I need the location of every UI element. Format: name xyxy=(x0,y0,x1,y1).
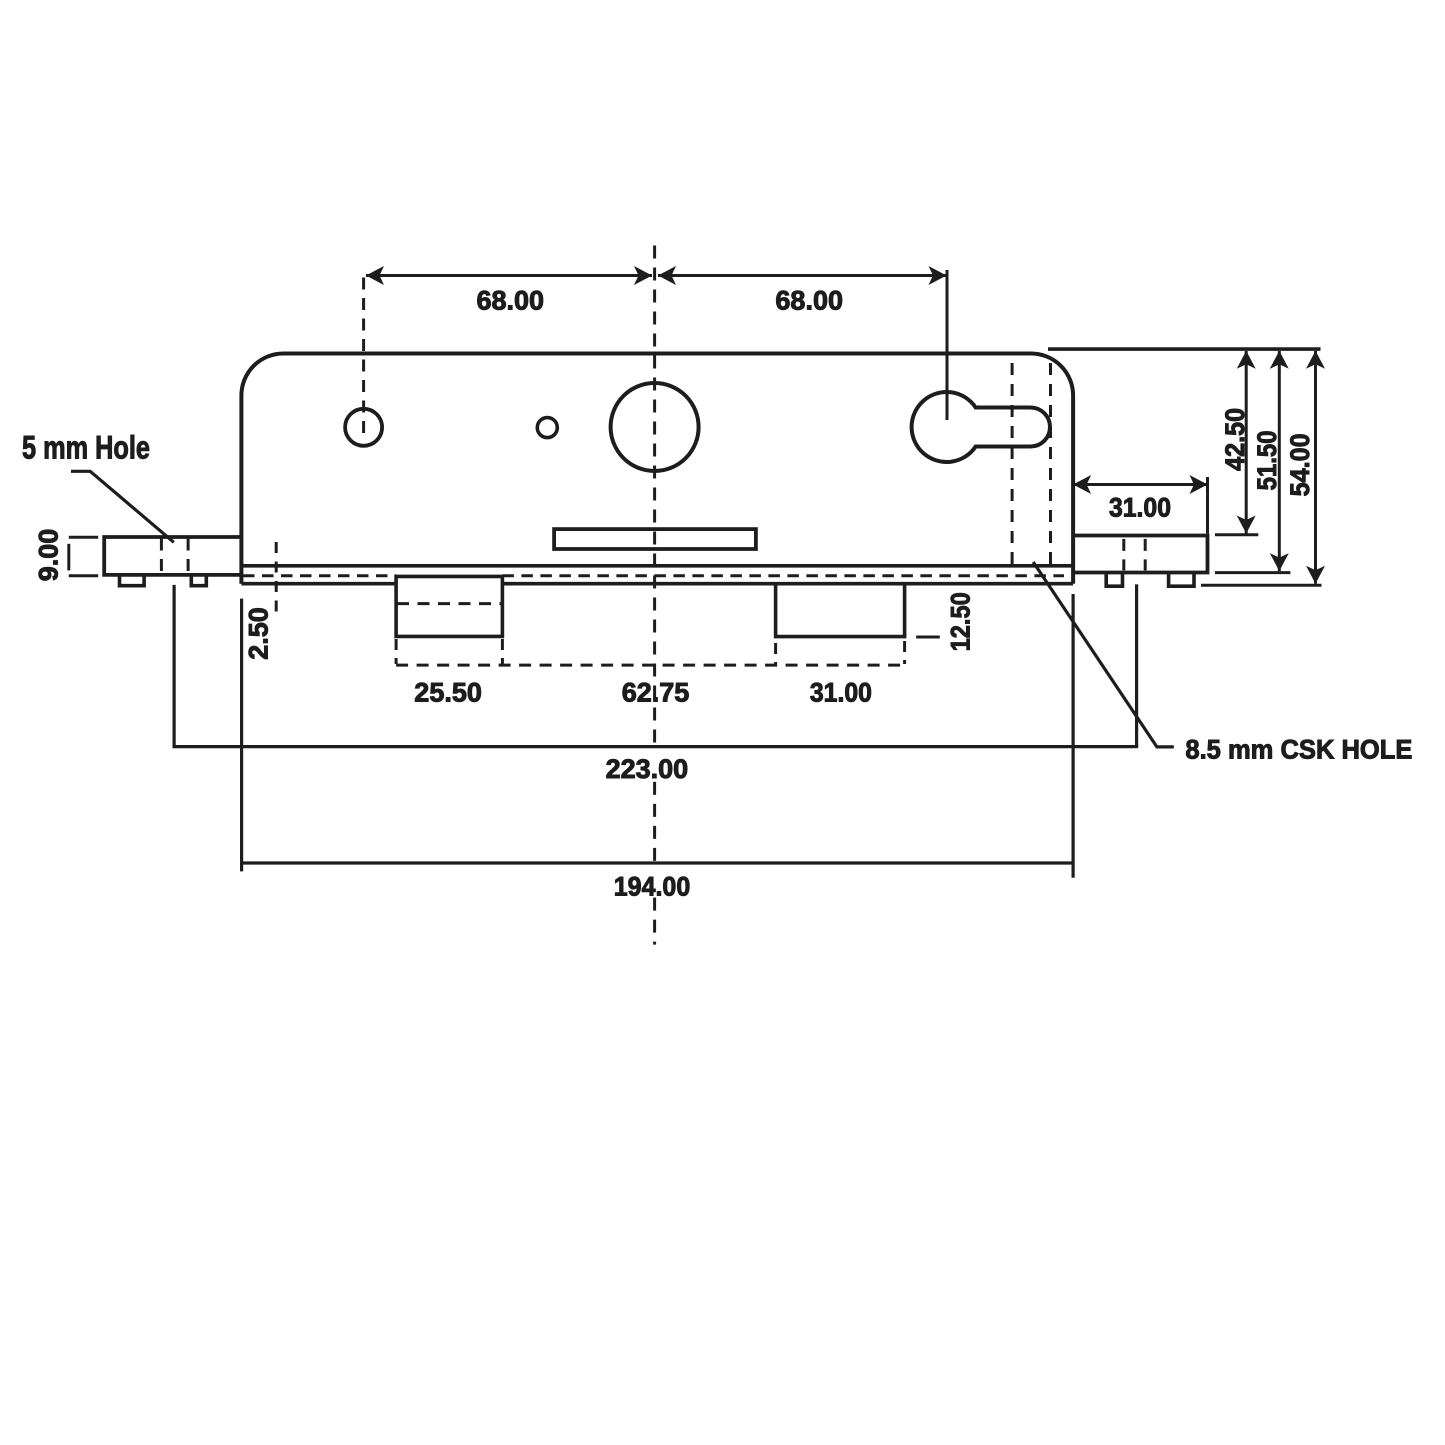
dashed riser at left cutout left edge xyxy=(395,639,398,664)
svg-text:42.50: 42.50 xyxy=(1220,408,1250,471)
dashed riser at left cutout right edge xyxy=(501,639,504,664)
leader line for 8.5 mm CSK HOLE xyxy=(1033,562,1174,747)
194.00 bracket line xyxy=(242,861,1074,864)
dashed extension line of left hole xyxy=(362,278,365,435)
svg-text:62.75: 62.75 xyxy=(622,678,690,708)
right flange cutout rectangle xyxy=(776,584,905,637)
rectangular slot below large hole xyxy=(554,529,756,549)
vertical centerline (dashed) middle segment xyxy=(653,782,656,862)
large center hole circle xyxy=(611,383,699,471)
base plate hidden mid line (dashed) left part xyxy=(243,574,396,577)
top extension line (body top, right side) xyxy=(1048,347,1321,351)
223.00 bracket line xyxy=(173,745,1139,748)
right tab outline xyxy=(1073,536,1207,573)
vertical dimension 54.00 xyxy=(1314,351,1317,584)
right tab foot 1 xyxy=(1106,573,1122,587)
9.00 dimension line xyxy=(67,544,70,571)
left tab foot 1 xyxy=(120,575,145,586)
svg-text:68.00: 68.00 xyxy=(477,286,545,316)
svg-text:8.5 mm CSK HOLE: 8.5 mm CSK HOLE xyxy=(1185,734,1412,764)
svg-text:5 mm Hole: 5 mm Hole xyxy=(22,430,150,466)
base plate bottom edge left segment xyxy=(241,582,396,586)
base plate hidden mid line (dashed) right part xyxy=(502,574,1064,577)
svg-text:51.50: 51.50 xyxy=(1252,430,1282,490)
svg-text:31.00: 31.00 xyxy=(810,678,872,708)
base plate top edge (bend line) xyxy=(241,564,1073,568)
svg-text:12.50: 12.50 xyxy=(946,592,976,651)
12.50 tick line xyxy=(916,636,940,639)
keyhole slot outline xyxy=(912,392,1050,462)
2.50 dashed extension line xyxy=(275,542,278,620)
vertical centerline (dashed) upper segment xyxy=(653,246,656,745)
svg-text:2.50: 2.50 xyxy=(243,607,273,660)
svg-text:223.00: 223.00 xyxy=(606,754,689,784)
left tab foot 2 xyxy=(191,575,206,586)
keyhole hidden dashed line left xyxy=(1011,363,1014,566)
223.00 bracket right extension xyxy=(1135,584,1138,746)
194.00 bracket left extension xyxy=(240,599,243,872)
dashed riser at right cutout left edge xyxy=(774,643,777,664)
svg-text:194.00: 194.00 xyxy=(614,871,691,901)
svg-text:31.00: 31.00 xyxy=(1109,492,1171,522)
svg-text:9.00: 9.00 xyxy=(33,529,63,582)
body outline (rounded-top plate) xyxy=(241,354,1073,584)
extension stub at tab bottom level xyxy=(1215,571,1290,574)
dimension line 68.00 left xyxy=(366,274,652,277)
223.00 bracket left extension xyxy=(173,585,176,747)
left flange cutout rectangle xyxy=(396,576,502,636)
dashed riser at right cutout right edge xyxy=(903,641,906,664)
right tab foot 2 xyxy=(1169,573,1194,587)
extension stub at feet bottom level xyxy=(1201,584,1322,587)
vertical dimension 51.50 xyxy=(1278,351,1281,571)
9.00 dimension stub top xyxy=(69,536,98,539)
vertical centerline (dashed) lower segment xyxy=(653,898,656,945)
9.00 dimension stub bottom xyxy=(69,574,98,577)
leader line for 5 mm Hole xyxy=(71,471,174,542)
base plate bottom edge right segment xyxy=(502,582,1073,586)
left cutout hidden dashed line xyxy=(397,602,502,605)
keyhole hidden dashed line right xyxy=(1049,363,1052,566)
dashed extent line under cutouts xyxy=(396,664,904,667)
vertical dimension 42.50 xyxy=(1245,351,1248,534)
svg-text:54.00: 54.00 xyxy=(1285,433,1315,496)
right tab hidden hole dashed line 2 xyxy=(1144,539,1147,571)
solid extension line of keyhole center xyxy=(946,270,949,420)
left tab outline xyxy=(104,537,241,575)
194.00 bracket right extension xyxy=(1071,594,1074,878)
svg-text:68.00: 68.00 xyxy=(775,286,843,316)
small pilot hole circle xyxy=(537,418,557,438)
extension line right tab outer edge xyxy=(1206,477,1209,534)
right tab hidden hole dashed line 1 xyxy=(1122,539,1125,571)
left 5mm hole circle xyxy=(345,409,382,446)
svg-text:25.50: 25.50 xyxy=(414,678,482,708)
dimension line 31.00 (right tab width) xyxy=(1073,483,1207,486)
dimension line 68.00 right xyxy=(658,274,947,277)
left tab hidden 5mm hole dashed line 1 xyxy=(160,539,163,574)
extension stub at tab top level xyxy=(1215,533,1258,536)
left tab hidden 5mm hole dashed line 2 xyxy=(187,539,190,574)
